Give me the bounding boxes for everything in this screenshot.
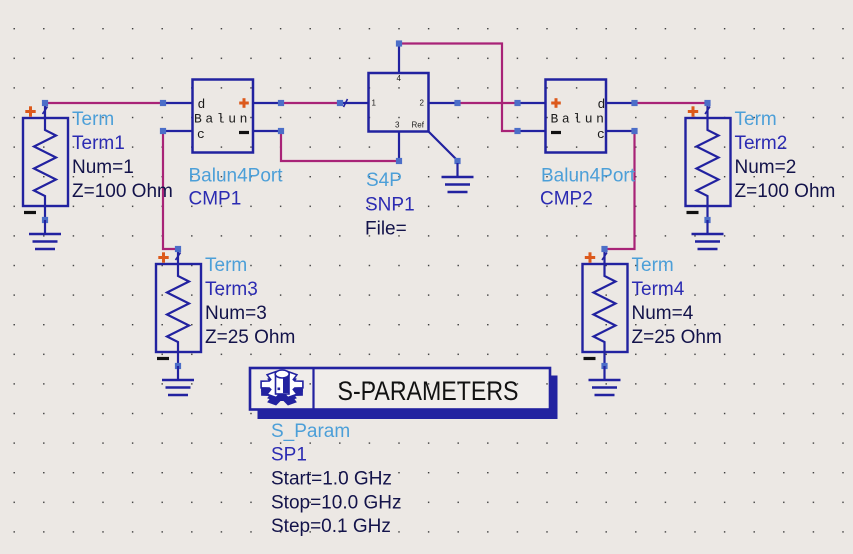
svg-text:Term: Term bbox=[205, 255, 247, 276]
svg-text:d: d bbox=[598, 97, 606, 112]
svg-text:File=: File= bbox=[365, 219, 407, 240]
ground (Term2) bbox=[692, 220, 724, 249]
wire CMP2 pin c to Term4 bbox=[605, 131, 635, 249]
term Term1 bbox=[23, 100, 68, 223]
svg-text:Stop=10.0 GHz: Stop=10.0 GHz bbox=[271, 493, 401, 514]
S-PARAMETERS controller box bbox=[250, 368, 550, 410]
svg-text:S4P: S4P bbox=[366, 170, 402, 191]
svg-text:Balun: Balun bbox=[551, 112, 608, 127]
svg-text:Balun4Port: Balun4Port bbox=[541, 166, 636, 187]
wire CMP1 plus to S4P pin 1 bbox=[281, 102, 340, 104]
s4p SNP1 box bbox=[340, 44, 458, 162]
svg-text:Num=4: Num=4 bbox=[632, 303, 694, 324]
svg-text:d: d bbox=[198, 97, 206, 112]
svg-text:Balun4Port: Balun4Port bbox=[189, 166, 284, 187]
wire CMP1 minus to S4P pin 3 bbox=[281, 131, 399, 161]
CMP1 minus marker bbox=[239, 131, 249, 134]
S-PARAMETERS icon cell divider bbox=[312, 368, 314, 410]
svg-text:SNP1: SNP1 bbox=[365, 195, 415, 216]
S-PARAMETERS gear icon bbox=[261, 370, 303, 406]
svg-text:Term: Term bbox=[72, 109, 114, 130]
svg-text:c: c bbox=[597, 127, 605, 142]
wire S4P pin 2 to CMP2 plus bbox=[458, 102, 518, 104]
svg-text:Z=100 Ohm: Z=100 Ohm bbox=[735, 181, 836, 202]
svg-text:SP1: SP1 bbox=[271, 445, 307, 466]
svg-text:Balun: Balun bbox=[194, 112, 251, 127]
term Term2 bbox=[686, 100, 731, 223]
ground (Term1) bbox=[29, 220, 61, 249]
svg-text:Z=100 Ohm: Z=100 Ohm bbox=[72, 181, 173, 202]
svg-text:Num=2: Num=2 bbox=[735, 157, 797, 178]
svg-text:Term4: Term4 bbox=[632, 279, 685, 300]
CMP1 plus marker bbox=[239, 98, 249, 108]
term Term3 bbox=[156, 246, 201, 369]
wire CMP1 pin c to Term3 bbox=[163, 131, 178, 249]
ground (S4P Ref) bbox=[442, 163, 474, 192]
s4p pin 1 tick bbox=[344, 99, 348, 107]
svg-text:c: c bbox=[197, 127, 205, 142]
s4p pin squares bbox=[337, 40, 461, 164]
svg-text:S-PARAMETERS: S-PARAMETERS bbox=[338, 376, 519, 406]
svg-text:Z=25 Ohm: Z=25 Ohm bbox=[205, 327, 295, 348]
svg-text:Num=1: Num=1 bbox=[72, 157, 134, 178]
svg-text:2: 2 bbox=[420, 99, 425, 108]
balun CMP1 bbox=[160, 80, 284, 153]
term Term4 bbox=[583, 246, 628, 369]
svg-text:S_Param: S_Param bbox=[271, 421, 350, 442]
S-PARAMETERS controller shadow bbox=[258, 376, 558, 420]
svg-text:CMP2: CMP2 bbox=[540, 189, 593, 210]
svg-text:Z=25 Ohm: Z=25 Ohm bbox=[632, 327, 722, 348]
svg-text:Term: Term bbox=[735, 109, 777, 130]
s4p SNP1 ref pin diagonal bbox=[428, 131, 457, 160]
svg-text:Start=1.0 GHz: Start=1.0 GHz bbox=[271, 469, 392, 490]
ground (Term4) bbox=[589, 366, 621, 395]
wire Term1 to CMP1 pin d bbox=[45, 102, 163, 104]
CMP2 minus marker bbox=[551, 131, 561, 134]
CMP2 plus marker bbox=[551, 98, 561, 108]
svg-text:Num=3: Num=3 bbox=[205, 303, 267, 324]
svg-text:CMP1: CMP1 bbox=[189, 189, 242, 210]
svg-text:1: 1 bbox=[372, 99, 377, 108]
svg-text:3: 3 bbox=[395, 121, 400, 130]
wire S4P pin 4 to CMP2 minus bbox=[399, 44, 518, 132]
svg-text:Term1: Term1 bbox=[72, 133, 125, 154]
svg-text:4: 4 bbox=[397, 74, 402, 83]
svg-text:Term2: Term2 bbox=[735, 133, 788, 154]
svg-text:Term3: Term3 bbox=[205, 279, 258, 300]
wire CMP2 pin d to Term2 bbox=[635, 102, 708, 104]
balun CMP2 bbox=[514, 80, 637, 153]
svg-text:Term: Term bbox=[632, 255, 674, 276]
ground (Term3) bbox=[162, 366, 194, 395]
svg-text:Step=0.1 GHz: Step=0.1 GHz bbox=[271, 516, 391, 537]
svg-text:Ref: Ref bbox=[412, 121, 425, 130]
